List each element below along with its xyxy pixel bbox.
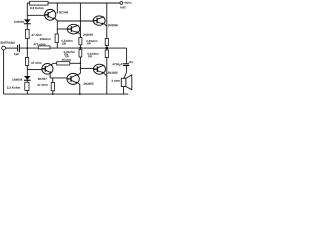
label 0,33ohm lower-right xyxy=(88,53,99,55)
resistor R2 47 ohm upper xyxy=(26,29,30,38)
label 2N3055 Q5 xyxy=(108,72,118,74)
diode D2 1N4004 xyxy=(24,76,31,80)
wire Q1 collector xyxy=(56,3,58,14)
junction output left xyxy=(26,47,28,49)
wire Q4 collector xyxy=(78,73,80,75)
label 1W lower-right xyxy=(88,55,92,57)
wire bottom ground rail xyxy=(4,93,129,95)
wire output cap to speaker xyxy=(124,66,127,79)
label 2N3055 Q4 xyxy=(84,83,94,85)
resistor R11 47 ohm bottom xyxy=(51,83,54,91)
label 1uF xyxy=(14,53,19,56)
label 1W upper-left xyxy=(62,43,66,45)
wire lower 0.33 column to Q4 collector xyxy=(79,57,81,73)
label batt xyxy=(120,6,125,8)
transistor Q1 BC548 xyxy=(45,9,56,20)
label 47 ohm upper xyxy=(31,34,41,36)
terminal +9V battery xyxy=(120,2,123,5)
label 1N4004 bottom xyxy=(12,79,22,81)
junction 1K to column xyxy=(80,63,82,65)
junction output right xyxy=(105,47,108,50)
wire to Q2 base xyxy=(57,28,67,30)
label 47 ohm mid xyxy=(31,62,41,64)
resistor R6 0,33 ohm upper-right xyxy=(105,38,108,45)
label ENTRADA xyxy=(1,42,15,44)
capacitor C1 1uF input xyxy=(18,44,20,52)
wire top supply rail xyxy=(27,2,120,4)
wire BC557 emitter down xyxy=(49,73,51,78)
capacitor C2 4700uF output xyxy=(123,64,129,66)
label 1W lower-left xyxy=(64,53,68,55)
label 2N3055 Q2 xyxy=(83,34,93,36)
wire driver node to Q3 base xyxy=(57,20,93,22)
wire Q4 emitter xyxy=(78,83,80,94)
junction ground Q4 xyxy=(79,93,81,95)
wire Q3 collector column xyxy=(106,3,108,38)
wire Q1 base xyxy=(27,14,45,16)
wire Q5 emitter to ground xyxy=(104,73,106,75)
transistor Q4 2N3055 xyxy=(67,73,79,84)
label 3,3 Kohm bottom xyxy=(7,86,20,89)
terminal input ENTRADA xyxy=(2,46,6,50)
junction ground 47ohm xyxy=(52,93,54,95)
label 16V xyxy=(129,61,133,63)
wire node to Q5 base xyxy=(80,67,94,69)
label 1W above 1K xyxy=(65,55,69,57)
transistor Q5 2N3055 xyxy=(94,64,106,74)
wire input ground leg xyxy=(3,50,5,94)
label 0,33ohm lower-left xyxy=(64,51,75,53)
wire Q2 collector column xyxy=(79,3,81,37)
transistor Q2 2N3055 xyxy=(67,24,79,34)
label 2N3055 Q3 xyxy=(108,24,118,26)
junction output mid xyxy=(79,47,81,49)
resistor R5 0,33 ohm upper-left xyxy=(79,37,82,44)
label 0,33ohm upper-right xyxy=(86,40,97,42)
label 470 ohm xyxy=(33,43,45,45)
resistor R1 3,3 Kohm xyxy=(30,1,48,5)
label 4700uF xyxy=(112,63,122,66)
wire lower right 0.33 to Q5 collector xyxy=(106,58,108,95)
transistor Q6 BC557 xyxy=(42,64,53,75)
wire BC557 emitter node to Q4 base xyxy=(50,78,67,83)
wire BC557 collector to 1K xyxy=(51,63,57,65)
resistor R8 0,33 ohm lower-right xyxy=(105,50,108,58)
wire BC557 base xyxy=(27,69,42,71)
wire Q2 emitter resistor to output node xyxy=(79,45,81,50)
label 1W upper-right xyxy=(87,42,91,44)
label 0,33ohm upper-left xyxy=(62,40,73,42)
label 1Kohm xyxy=(62,59,71,61)
resistor R4 470 ohm xyxy=(38,46,50,49)
wire 1K to output column xyxy=(70,62,81,64)
label +9Vcc xyxy=(124,2,132,4)
label BC548 xyxy=(59,11,68,13)
label 47 ohm bottom xyxy=(37,84,47,86)
wire input terminal to coupling cap xyxy=(6,47,18,49)
resistor R3 100 ohm xyxy=(55,34,58,43)
diode D1 1N4004 xyxy=(24,19,31,23)
wire 47ohm bottom to ground xyxy=(52,91,54,94)
label 100ohm xyxy=(40,38,51,40)
resistor R10 1 Kohm xyxy=(57,62,70,65)
wire Q2 emitter xyxy=(78,33,80,38)
transistor Q3 2N3055 xyxy=(93,16,105,25)
speaker LS1 xyxy=(121,75,132,90)
wire speaker to ground xyxy=(123,87,125,95)
label 3,3 Kohm xyxy=(30,7,43,10)
resistor R9 47 ohm mid-left xyxy=(25,58,28,66)
label 4 ohm speaker xyxy=(111,80,119,82)
wire Q3 emitter column xyxy=(104,24,106,26)
label 1N4004 top xyxy=(14,21,24,23)
junction Q5 base wire xyxy=(80,68,82,70)
wire right 0.33 pair to output node xyxy=(106,46,108,51)
resistor R12 3,3 Kohm bottom xyxy=(25,82,29,90)
resistor R7 0,33 ohm lower-left xyxy=(79,49,82,57)
wire right output column xyxy=(126,48,128,63)
wire output node rail xyxy=(20,47,127,49)
label BC557 xyxy=(38,78,47,80)
wire left bias column xyxy=(26,3,28,94)
wire Q1 emitter column xyxy=(55,18,57,48)
